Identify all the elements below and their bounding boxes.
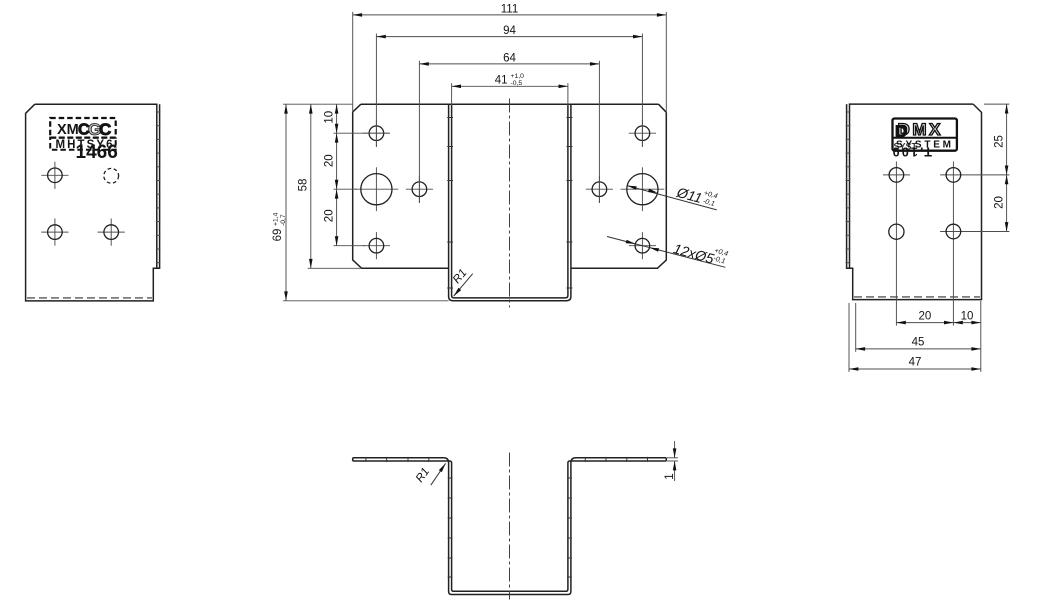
dimension 20 lower (vertical) bbox=[324, 189, 366, 246]
leader and label 12xD5 bbox=[607, 237, 729, 268]
dimension 25 (right view, vertical) bbox=[984, 104, 1009, 175]
dimension 20 (right view, bottom) bbox=[896, 310, 953, 324]
front view hole inner-left small bbox=[406, 176, 433, 203]
svg-text:10: 10 bbox=[961, 310, 974, 322]
svg-text:20: 20 bbox=[324, 154, 336, 167]
front view hole top-left small bbox=[363, 120, 390, 147]
leader and label R1 front view bbox=[451, 267, 473, 297]
svg-text:1: 1 bbox=[664, 473, 676, 479]
left side view outline bbox=[26, 104, 160, 301]
right view stamp T.100 upside down bbox=[890, 144, 932, 158]
svg-text:DMX: DMX bbox=[898, 120, 944, 139]
leader and label R1 bottom view bbox=[414, 462, 447, 485]
right view bottom bend dashed line bbox=[854, 296, 980, 298]
right view hole top-left bbox=[883, 168, 910, 183]
bottom view outer profile bbox=[353, 458, 667, 595]
dimension 1 (sheet thickness) bbox=[664, 441, 678, 481]
dimension 58 (vertical) bbox=[298, 104, 362, 268]
bottom view inner profile bbox=[353, 461, 667, 591]
svg-text:111: 111 bbox=[501, 3, 518, 15]
svg-text:69: 69 bbox=[272, 229, 284, 242]
svg-text:41: 41 bbox=[495, 75, 508, 87]
bottom view sheet hatch ticks bbox=[366, 457, 648, 577]
front view hole bottom-right small bbox=[629, 232, 656, 259]
right view hole bottom-right bbox=[940, 224, 1009, 239]
front view hole bottom-left small bbox=[363, 232, 390, 259]
right view bend hatch ticks bbox=[846, 112, 851, 263]
svg-text:45: 45 bbox=[912, 337, 925, 349]
left view bend hatch ticks bbox=[156, 112, 161, 263]
front view channel bend ticks bbox=[447, 118, 572, 289]
svg-text:25: 25 bbox=[994, 135, 1006, 148]
svg-text:C: C bbox=[99, 120, 111, 139]
front view hole middle-left large (D11) bbox=[355, 167, 399, 211]
right view extension line through right holes bbox=[952, 162, 954, 326]
dimension 20 (right view, vertical) bbox=[994, 175, 1009, 232]
svg-text:+1,4: +1,4 bbox=[273, 212, 280, 226]
right side view outline bbox=[847, 104, 982, 300]
front view hole middle-right large (D11) bbox=[621, 167, 665, 211]
front view plate outline bbox=[353, 104, 667, 268]
svg-text:1466: 1466 bbox=[76, 142, 118, 163]
svg-text:-0,7: -0,7 bbox=[280, 214, 287, 226]
right view hole bottom-left (plain) bbox=[889, 224, 904, 239]
front view channel walls and bottom bbox=[449, 104, 571, 301]
left view bottom bend dashed line bbox=[27, 297, 152, 299]
dimension 94 bbox=[376, 25, 642, 147]
bottom view left end cap bbox=[352, 458, 354, 461]
left view hole bottom-right bbox=[98, 219, 125, 246]
dimension 10 (right view, bottom) bbox=[953, 310, 980, 324]
dimension 69 with tolerance (vertical) bbox=[272, 104, 449, 301]
svg-text:XM: XM bbox=[57, 122, 79, 138]
left view hole bottom-left bbox=[41, 219, 68, 246]
svg-text:20: 20 bbox=[324, 209, 336, 222]
left view hole top-left bbox=[41, 162, 68, 189]
dimension 47 (right view) bbox=[849, 301, 981, 372]
bottom view vertical centerline bbox=[509, 453, 511, 600]
svg-text:T.100: T.100 bbox=[890, 144, 932, 158]
dimension 10 (vertical) bbox=[324, 104, 390, 133]
svg-text:10: 10 bbox=[324, 111, 336, 124]
svg-text:94: 94 bbox=[503, 25, 516, 37]
front view hole top-right small bbox=[629, 120, 656, 147]
left view hole top-right (hidden, dashed) bbox=[104, 168, 119, 183]
svg-text:+1,0: +1,0 bbox=[511, 73, 525, 80]
svg-text:64: 64 bbox=[503, 52, 516, 64]
right view stamp DMX bbox=[893, 119, 957, 152]
svg-text:20: 20 bbox=[994, 196, 1006, 209]
dimension 45 (right view) bbox=[856, 303, 981, 352]
left view stamp box XMC bbox=[50, 118, 116, 151]
bottom view right end cap bbox=[665, 458, 667, 461]
leader and label D11 bbox=[627, 184, 719, 210]
svg-text:58: 58 bbox=[298, 179, 310, 192]
dimension 41 with tolerance bbox=[452, 73, 568, 106]
front view hole inner-right small bbox=[586, 176, 613, 203]
svg-text:20: 20 bbox=[919, 310, 932, 322]
front view vertical centerline bbox=[509, 99, 511, 308]
dimension 64 bbox=[419, 52, 599, 203]
right view extension line through left holes bbox=[895, 162, 897, 326]
dimension 20 upper (vertical) bbox=[324, 133, 358, 189]
svg-text:-0,5: -0,5 bbox=[511, 80, 523, 87]
dimension 111 bbox=[353, 3, 667, 112]
right view hole top-right bbox=[940, 168, 1009, 183]
svg-text:47: 47 bbox=[909, 357, 922, 369]
